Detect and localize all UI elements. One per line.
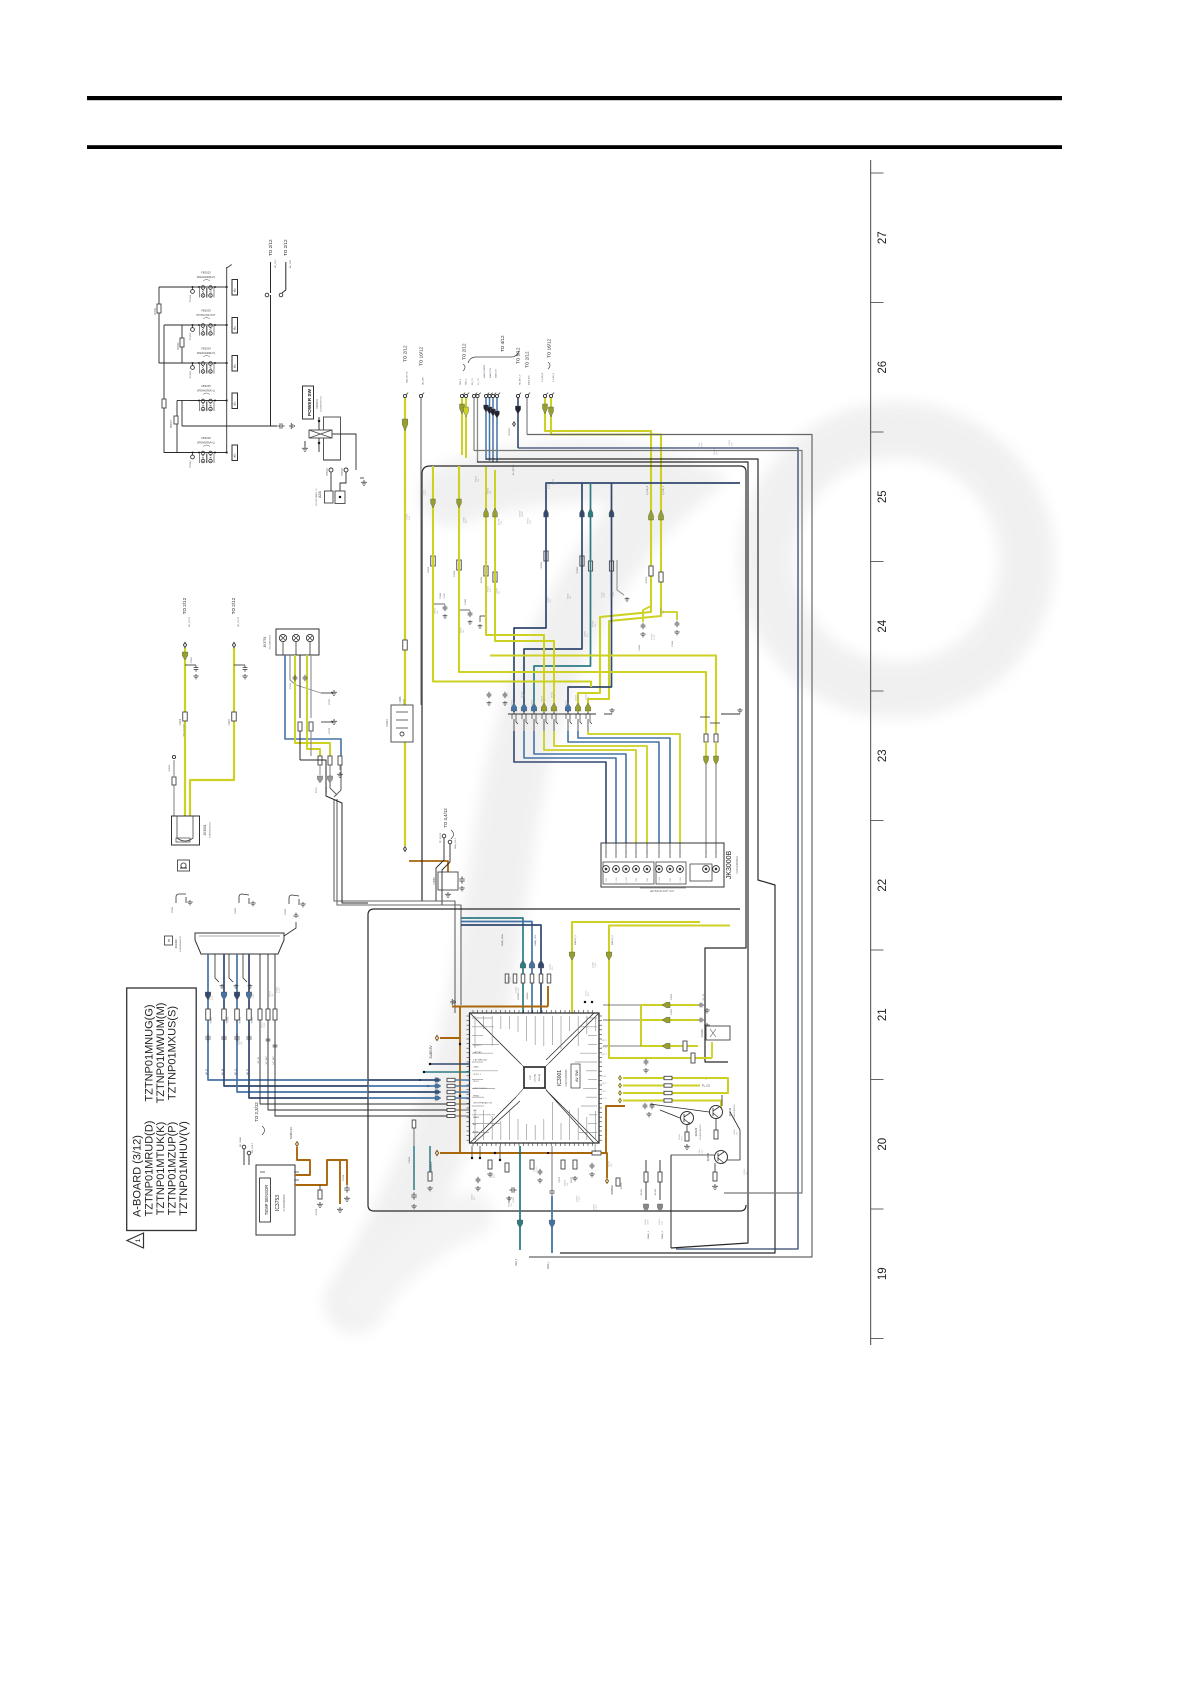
svg-text:L3006: L3006 — [180, 718, 182, 725]
svg-text:MAIN_5V: MAIN_5V — [495, 368, 498, 378]
wires to A3S connector — [330, 472, 332, 491]
svg-text:AP_M: AP_M — [222, 1069, 225, 1075]
wire yellow left 2 — [190, 648, 234, 816]
svg-text:24: 24 — [877, 619, 889, 632]
wire teal cascade f3 — [534, 483, 591, 712]
svg-text:100: 100 — [737, 1132, 739, 1135]
svg-text:MAIN_1: MAIN_1 — [647, 1230, 650, 1239]
rows into IC left lower — [447, 1103, 455, 1106]
title rule top — [87, 96, 1062, 100]
IC3001 AV SW tag — [571, 1064, 580, 1088]
label POWER SW — [303, 386, 314, 419]
test point TP3206 — [192, 363, 194, 366]
svg-text:KEY2: KEY2 — [601, 1083, 607, 1085]
connector pin FB3205 — [232, 393, 238, 409]
svg-text:FL_G: FL_G — [601, 1047, 606, 1049]
ground JK3300 right — [284, 922, 296, 936]
rows into IC left — [447, 1078, 455, 1081]
ground audio bus — [289, 423, 294, 429]
svg-text:21: 21 — [877, 1008, 889, 1021]
svg-text:0.1/50: 0.1/50 — [510, 977, 512, 982]
svg-text:R3090: R3090 — [621, 1182, 623, 1189]
wire gray pair up1 — [473, 398, 475, 451]
resistor R3009 — [173, 784, 175, 816]
svg-text:T AY MRC(30): T AY MRC(30) — [473, 1058, 487, 1061]
wire blue JK3751 — [285, 655, 341, 756]
svg-text:TZTNP01MZUP(P): TZTNP01MZUP(P) — [167, 1122, 179, 1216]
connector JK3300 tag — [165, 936, 173, 945]
resistor on yellow 651 — [649, 566, 653, 576]
svg-text:P_LED_B: P_LED_B — [647, 485, 649, 495]
capacitor stub near 470 — [459, 609, 470, 611]
wire yellow left 1 — [184, 648, 186, 816]
IC bottom junction squares — [471, 1146, 473, 1158]
yellow subcircuit parts — [641, 623, 646, 629]
wire gray pair up2 — [477, 398, 479, 463]
svg-text:100: 100 — [568, 703, 570, 706]
svg-text:SB_DET: SB_DET — [423, 376, 425, 385]
svg-text:A(FL750000F): A(FL750000F) — [183, 723, 186, 736]
svg-text:C3201: C3201 — [385, 719, 389, 727]
svg-text:I-LOE T1: I-LOE T1 — [473, 1045, 483, 1047]
connector JK3751 pins — [279, 634, 286, 641]
capacitor column extras — [266, 1037, 271, 1043]
svg-text:RV3001: RV3001 — [701, 1028, 704, 1037]
svg-text:TO 5/12: TO 5/12 — [516, 347, 521, 364]
ferrite bead pair FB3206 — [190, 436, 228, 463]
wire navy cascade f1 — [514, 483, 740, 712]
wire thin column hooks — [215, 954, 219, 982]
transistor Q3734 — [710, 1106, 723, 1119]
test point hook TP3302 — [239, 894, 249, 904]
svg-text:CXP: CXP — [530, 1075, 532, 1080]
svg-text:TP3206: TP3206 — [190, 370, 192, 378]
gray hook pair mid — [617, 560, 624, 595]
yellow ladder vertical a — [640, 1005, 642, 1046]
svg-text:SDVDD: SDVDD — [527, 992, 529, 1000]
resistor on feeder navy 611 — [609, 561, 613, 571]
transistor Q3435 — [715, 1151, 728, 1164]
svg-text:V_LED: V_LED — [680, 876, 682, 883]
svg-text:SB4_MUTE: SB4_MUTE — [407, 371, 409, 383]
svg-text:FB3205: FB3205 — [201, 384, 211, 388]
capacitor stub near 445 — [433, 603, 445, 605]
svg-text:0.1/50: 0.1/50 — [702, 1150, 704, 1155]
wire brown rail bottom — [440, 1152, 592, 1154]
wire cascade to JK3000B pin 4 — [544, 731, 636, 843]
svg-text:C1ZBZ0003649: C1ZBZ0003649 — [283, 1194, 286, 1212]
svg-text:TO 2,3/12: TO 2,3/12 — [254, 1102, 259, 1122]
svg-text:K1KA16A00129: K1KA16A00129 — [179, 935, 182, 951]
yellow ladder B rungs — [619, 1076, 622, 1080]
svg-text:DIGITAL: DIGITAL — [534, 1073, 537, 1082]
svg-text:KEY1: KEY1 — [601, 1054, 607, 1056]
inductor L3008 — [403, 640, 408, 650]
svg-text:L3008: L3008 — [399, 696, 402, 703]
svg-text:1000P: 1000P — [444, 592, 446, 598]
svg-text:JK3000B: JK3000B — [726, 850, 733, 879]
svg-text:1/16W: 1/16W — [253, 993, 255, 999]
svg-text:C0EBF0000593: C0EBF0000593 — [565, 1069, 568, 1087]
wire gray band b — [477, 462, 748, 1248]
svg-text:P_LED_B: P_LED_B — [542, 372, 544, 382]
svg-text:R3751: R3751 — [316, 786, 318, 793]
wire brown rail bottom right — [601, 1153, 607, 1178]
extra navy teal rows — [430, 1063, 470, 1065]
svg-text:GND: GND — [670, 877, 672, 882]
resistor on yellow 661 — [659, 572, 663, 582]
svg-text:1000P: 1000P — [702, 442, 704, 448]
svg-text:IC3001: IC3001 — [557, 1070, 563, 1086]
svg-text:TO 2/12: TO 2/12 — [525, 351, 530, 368]
ground JK3751 b — [321, 721, 333, 723]
svg-text:JK3751: JK3751 — [263, 636, 267, 647]
svg-text:MAIN_2: MAIN_2 — [661, 1230, 664, 1239]
svg-text:MAR_L: MAR_L — [547, 1260, 550, 1269]
svg-text:19: 19 — [877, 1267, 889, 1280]
wire yellow TO 16/12 b — [551, 398, 661, 713]
ic IC3753 tag TEMP SENSOR — [260, 1178, 271, 1222]
svg-text:0.1/50: 0.1/50 — [425, 490, 427, 495]
svg-text:B1GBCFJN0009: B1GBCFJN0009 — [700, 1124, 702, 1140]
resistor pair bottom mid — [659, 1160, 661, 1172]
cascade long yellow g2 — [459, 466, 706, 731]
caps ladder B — [643, 1103, 648, 1109]
svg-text:TO 4/12: TO 4/12 — [500, 335, 505, 352]
wire audio bottom bus — [182, 425, 277, 427]
wire blue column 1 — [208, 954, 368, 1080]
wire yellow TO 16/12 a — [545, 398, 651, 713]
svg-text:TO 3,4/12: TO 3,4/12 — [443, 808, 448, 828]
bus wire to transistor area — [705, 472, 746, 1062]
svg-text:JK3300: JK3300 — [174, 939, 178, 949]
svg-text:P6: P6 — [167, 938, 171, 942]
svg-text:L3007: L3007 — [229, 718, 231, 725]
yellow ladder A rung4 — [609, 1042, 712, 1058]
svg-text:C3752: C3752 — [290, 682, 292, 689]
capacitor C3008 — [234, 664, 245, 666]
cascade long yellow g3 — [490, 656, 716, 732]
svg-text:POWER SW: POWER SW — [307, 388, 313, 416]
capacitor C3752 — [293, 675, 298, 681]
warning triangle — [127, 1233, 144, 1248]
wire brown right entry — [606, 1106, 625, 1153]
IC3001 pin ticks — [467, 1010, 603, 1146]
junction squares top — [584, 1001, 586, 1003]
svg-text:MACLING: MACLING — [528, 375, 531, 385]
svg-text:1/16W: 1/16W — [518, 987, 520, 993]
junction squares rail — [459, 1043, 461, 1045]
ferrite FB3008 — [592, 1151, 601, 1155]
svg-text:MB: MB — [473, 1139, 477, 1141]
svg-text:TO 10/12: TO 10/12 — [419, 346, 424, 366]
wire cascade to JK3000B pin 5 — [554, 731, 647, 843]
svg-text:TO 2/12: TO 2/12 — [283, 239, 288, 256]
hook caps on yellow feeders — [480, 616, 486, 622]
svg-text:LED BACKLIGHT OUT: LED BACKLIGHT OUT — [650, 890, 675, 893]
svg-text:TP3203: TP3203 — [190, 332, 192, 340]
svg-text:LNB8: LNB8 — [473, 1067, 479, 1069]
svg-text:V3302: V3302 — [235, 907, 237, 914]
svg-text:TO 2/12: TO 2/12 — [462, 343, 467, 360]
wire yellow TO 2/12 (long) — [404, 398, 406, 847]
yellow subcircuit stubs — [643, 606, 651, 622]
svg-text:C3754: C3754 — [343, 1174, 345, 1181]
headphone icon box — [178, 860, 190, 871]
svg-text:100: 100 — [499, 591, 501, 594]
wire sw to A3S — [341, 434, 357, 470]
wire blue into IC top 2 — [461, 922, 532, 1014]
svg-text:C3052: C3052 — [671, 1008, 673, 1015]
blue thick bundle rows — [368, 1079, 439, 1081]
svg-text:FN_7S: FN_7S — [472, 378, 474, 385]
svg-text:P_LED_S: P_LED_S — [553, 372, 555, 382]
resistor on feeder navy 582 — [580, 556, 584, 566]
main block outer border — [368, 909, 746, 1211]
svg-text:0.1/50: 0.1/50 — [228, 1017, 230, 1022]
svg-text:B:PORTABLE TV: B:PORTABLE TV — [315, 488, 318, 505]
switch SW3001 body — [324, 417, 341, 460]
wire yellow TO 2/12 pair up2 — [465, 398, 467, 459]
wire yellow cascade f5 — [495, 470, 554, 712]
svg-text:C3007: C3007 — [191, 656, 193, 663]
resistor on feeder yellow 495 — [493, 572, 497, 582]
power pin SUB3.3V temp — [296, 1142, 299, 1147]
svg-text:100: 100 — [555, 482, 557, 485]
svg-text:SP_OUT: SP_OUT — [275, 259, 277, 268]
connector pin FB3206 — [232, 445, 238, 461]
svg-text:P_LED: P_LED — [659, 876, 661, 883]
svg-text:1000P: 1000P — [613, 591, 615, 597]
power rail SUB3.3V diamond — [435, 1035, 438, 1040]
svg-text:TO 2/12: TO 2/12 — [403, 345, 408, 362]
wire yellow right mid — [609, 926, 730, 1043]
ground power sw — [302, 446, 308, 451]
wire jk3751 bus third — [300, 760, 368, 903]
wire gray JK3751 gnd hook — [290, 655, 296, 685]
svg-text:P_LED_S: P_LED_S — [663, 485, 665, 495]
svg-text:25: 25 — [877, 490, 889, 503]
title rule bottom — [87, 145, 1062, 149]
IC3001 center die — [524, 1067, 545, 1088]
svg-text:VAI: VAI — [473, 1109, 477, 1112]
wire yellow cascade f4 — [486, 467, 544, 712]
board label box — [127, 988, 197, 1231]
wire to label TO 2/12 left — [270, 262, 272, 293]
svg-text:AC_DET: AC_DET — [289, 259, 292, 268]
svg-text:Q3123: Q3123 — [694, 1127, 698, 1136]
svg-text:SPEAKER(A+L): SPEAKER(A+L) — [197, 442, 215, 445]
svg-text:TP3051: TP3051 — [509, 428, 511, 436]
svg-text:CLK/T 1: CLK/T 1 — [473, 1074, 482, 1076]
resistor R3304 — [162, 399, 166, 408]
svg-text:SP_OUT1: SP_OUT1 — [189, 616, 191, 627]
transistor Q3123 — [681, 1112, 694, 1125]
svg-text:SPEAKER(A+L): SPEAKER(A+L) — [197, 390, 215, 393]
svg-text:SUB3.3V: SUB3.3V — [429, 1045, 433, 1059]
ferrite bead pair FB3204 — [190, 347, 228, 374]
svg-text:1: 1 — [135, 1238, 142, 1242]
test point TP3002 — [344, 468, 348, 472]
svg-text:PK M1: PK M1 — [641, 1188, 643, 1195]
wire yellow JK3751 a — [295, 655, 330, 756]
svg-text:FB3008: FB3008 — [595, 1143, 597, 1151]
svg-text:0.1/50: 0.1/50 — [279, 988, 281, 993]
svg-text:LED1: LED1 — [601, 1076, 607, 1078]
connector JK3751 body — [276, 629, 319, 655]
resistor on feeder yellow 433 — [431, 556, 436, 566]
test point TP3203 — [192, 325, 194, 328]
capacitor temp — [344, 1185, 349, 1192]
watermark — [355, 430, 1027, 1302]
wire gray TO 10/12 — [420, 398, 422, 704]
svg-text:C3301: C3301 — [440, 592, 442, 599]
test point TP3204 — [192, 287, 194, 290]
svg-text:RC_IN: RC_IN — [258, 1056, 260, 1063]
svg-text:GPW TOUCH: GPW TOUCH — [473, 1088, 487, 1090]
wire brown rail left — [440, 1007, 460, 1039]
op-chip IC3001 body — [470, 1013, 600, 1143]
ground A3S — [361, 480, 367, 485]
pins TO 3,4/12 — [442, 834, 446, 838]
wire cascade to JK3000B pin 7 — [578, 731, 670, 843]
svg-text:TO 2/12: TO 2/12 — [231, 597, 236, 614]
svg-text:V3301: V3301 — [172, 906, 174, 913]
svg-text:HP_DET: HP_DET — [273, 1055, 275, 1064]
svg-text:22: 22 — [877, 879, 889, 892]
wire cascade to JK3000B pin 1 — [514, 731, 606, 843]
ferrite FB3307 — [174, 416, 178, 424]
svg-text:C3332: C3332 — [639, 644, 641, 651]
inductor L3006 — [183, 712, 188, 721]
svg-text:AP_G: AP_G — [235, 1069, 238, 1075]
svg-text:AG: AG — [473, 1123, 476, 1126]
connector pin FB3204 — [232, 356, 238, 372]
svg-text:R3342: R3342 — [240, 1016, 242, 1023]
yellow ladder B tail — [700, 1078, 728, 1093]
arrows on cascade feeders — [544, 508, 549, 517]
svg-text:R3331: R3331 — [646, 576, 648, 583]
wire gray pair to IC top — [454, 1005, 456, 1007]
wire teal inner 2 — [429, 1146, 431, 1172]
svg-text:1000P: 1000P — [648, 1219, 650, 1225]
wire yellow pair to JK3000B right b — [715, 731, 717, 734]
svg-text:B1GBCFJN0009: B1GBCFJN0009 — [734, 1104, 736, 1120]
wire blue quad up — [485, 398, 487, 461]
svg-text:PHB8: PHB8 — [473, 1095, 479, 1097]
wire brown temp a — [295, 1147, 310, 1175]
svg-text:P_LED: P_LED — [626, 876, 628, 883]
blue bundle row 7 — [368, 1115, 447, 1117]
resistor on feeder yellow 459 — [457, 560, 462, 570]
component X3001 — [706, 1026, 730, 1040]
IC bottom small parts cluster — [530, 1160, 534, 1169]
svg-text:MAIN_VDD5S: MAIN_VDD5S — [483, 364, 486, 378]
wire black JK3751 — [299, 655, 301, 718]
svg-text:TP3003: TP3003 — [342, 467, 344, 476]
svg-text:L3306: L3306 — [454, 570, 456, 577]
svg-text:V3753: V3753 — [329, 727, 331, 734]
svg-text:P_LED: P_LED — [616, 876, 618, 883]
svg-text:TZTNP01MXUS(S): TZTNP01MXUS(S) — [167, 1006, 179, 1100]
svg-text:JK3001: JK3001 — [203, 824, 207, 835]
svg-text:TO 2/12: TO 2/12 — [268, 239, 273, 256]
svg-text:0.1/50: 0.1/50 — [513, 1196, 515, 1202]
svg-text:0.1/50: 0.1/50 — [596, 1205, 598, 1210]
caps on yellow drop wires — [487, 692, 492, 698]
wire cascade to JK3000B pin 3 — [534, 731, 626, 843]
arrows up on yellow right pair — [649, 510, 654, 520]
wire thin columns right — [260, 954, 368, 1104]
IC3001 pin name texture — [472, 1016, 597, 1140]
yellow ladder A rung1 — [603, 1004, 641, 1006]
svg-text:23: 23 — [877, 749, 889, 762]
svg-text:TZTNP01MHUV(V): TZTNP01MHUV(V) — [178, 1121, 190, 1216]
svg-text:KEY2: KEY2 — [601, 1091, 607, 1093]
svg-text:R3340: R3340 — [211, 1016, 213, 1023]
svg-text:RE_SCL3: RE_SCL3 — [252, 1142, 254, 1153]
svg-text:RE_SDA3: RE_SDA3 — [239, 1136, 242, 1147]
svg-text:PK M2: PK M2 — [655, 1188, 657, 1195]
svg-text:R3754: R3754 — [316, 1208, 318, 1215]
wire audio spine — [226, 267, 228, 453]
wire teal into IC top 1 — [461, 918, 523, 1013]
svg-text:R3322: R3322 — [577, 566, 579, 573]
arrows cascade pin row — [511, 703, 517, 711]
bus navy down right a — [518, 448, 798, 1249]
svg-text:K1MN23B00018: K1MN23B00018 — [736, 856, 739, 874]
svg-text:FL_G2: FL_G2 — [702, 1084, 710, 1088]
svg-text:R3302: R3302 — [178, 342, 180, 349]
connector pin FB3202 — [232, 280, 238, 296]
wire blue column 3 — [237, 954, 368, 1092]
resistor on feeder navy 546 — [544, 551, 548, 561]
svg-text:FB3206: FB3206 — [201, 436, 211, 440]
svg-text:Q3435: Q3435 — [706, 1152, 710, 1161]
svg-text:GND: GND — [647, 877, 649, 882]
capacitor ladder A — [644, 1059, 649, 1065]
svg-text:SDA_LVL3: SDA_LVL3 — [454, 838, 457, 849]
resistor column JK3751 — [318, 756, 322, 765]
svg-text:TZTNP01MWUM(M): TZTNP01MWUM(M) — [155, 1003, 167, 1104]
svg-text:R3065: R3065 — [571, 1176, 573, 1183]
svg-text:MAB4: MAB4 — [473, 1116, 480, 1119]
ferrite bead pair FB3205 — [190, 384, 228, 411]
grid ruler ticks — [871, 173, 884, 1339]
power rail SUB9V diamond — [435, 1150, 438, 1155]
resistor R3302 — [180, 338, 184, 347]
svg-text:0.1/50: 0.1/50 — [549, 484, 551, 489]
svg-text:R3321: R3321 — [541, 561, 543, 568]
svg-text:SPEAKER(B+H): SPEAKER(B+H) — [197, 352, 216, 355]
misc tiny reference labels — [210, 439, 749, 1225]
junction sq bottom — [318, 442, 320, 444]
grid ruler line — [870, 160, 872, 1345]
svg-text:V3303: V3303 — [285, 908, 287, 915]
test point hook TP3301 — [176, 894, 186, 903]
svg-text:MACL2_5: MACL2_5 — [574, 934, 577, 945]
svg-text:SB_RLY_V: SB_RLY_V — [520, 374, 522, 385]
svg-text:SB5_1: SB5_1 — [460, 378, 462, 385]
transistor wires — [660, 1110, 680, 1118]
wire cascade to JK3000B pin 8 — [588, 731, 680, 843]
svg-text:CHKTPPADAB CM: CHKTPPADAB CM — [473, 1102, 492, 1105]
pin diamond yellow long end — [404, 847, 407, 852]
resistor row above IC top — [505, 974, 509, 983]
svg-text:C3333: C3333 — [672, 640, 674, 647]
capacitor C3309 — [277, 423, 284, 428]
svg-text:SUB9V: SUB9V — [610, 1185, 614, 1194]
